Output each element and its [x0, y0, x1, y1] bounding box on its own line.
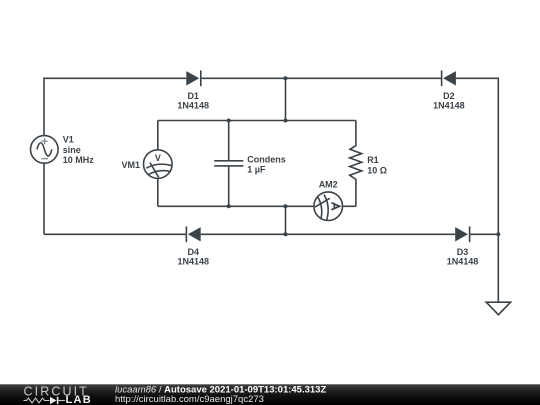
svg-text:D1: D1 — [187, 91, 199, 101]
footer bar — [0, 384, 540, 405]
svg-text:1N4148: 1N4148 — [177, 101, 209, 111]
node junction bottom mid — [284, 232, 288, 236]
voltage source V1 — [31, 121, 95, 166]
svg-text:V1: V1 — [63, 135, 74, 145]
diode D4 — [178, 226, 210, 266]
svg-text:1N4148: 1N4148 — [178, 257, 210, 267]
svg-text:10 Ω: 10 Ω — [367, 166, 387, 176]
node junction mid top — [284, 119, 288, 123]
diode D1 — [177, 70, 209, 110]
CircuitLab logo — [24, 384, 93, 405]
svg-text:D4: D4 — [188, 247, 200, 257]
node junction cap bottom — [227, 204, 231, 208]
footer text — [115, 384, 326, 405]
svg-text:10 MHz: 10 MHz — [63, 155, 95, 165]
wire: V1 bottom to bottom rail — [43, 163, 45, 234]
svg-text:R1: R1 — [367, 155, 379, 165]
wire: third horizontal VM1 bottom to AM2 left — [158, 205, 314, 207]
svg-text:V: V — [155, 153, 161, 163]
wire: second horizontal VM1 top to R1 top — [158, 120, 356, 122]
svg-text:sine: sine — [63, 145, 81, 155]
svg-text:AM2: AM2 — [319, 179, 338, 189]
wire: D2 anode right and down right side — [456, 78, 498, 234]
wire: D3 cathode to right rail — [470, 233, 498, 235]
svg-text:D3: D3 — [457, 247, 469, 257]
svg-text:1 µF: 1 µF — [247, 165, 266, 175]
wire: AM2 right to R1 bottom — [343, 205, 356, 207]
wire top-left: V1 top to D1 anode — [44, 78, 186, 135]
wire: right rail down to ground — [497, 234, 499, 302]
wire: bottom rail left to D4 cathode — [44, 233, 186, 235]
diode D3 — [447, 226, 479, 266]
svg-text:VM1: VM1 — [121, 160, 140, 170]
svg-text:http://circuitlab.com/c9aengj7: http://circuitlab.com/c9aengj7qc273 — [115, 394, 264, 405]
ground — [486, 302, 510, 315]
svg-text:D2: D2 — [443, 91, 455, 101]
svg-text:1N4148: 1N4148 — [433, 101, 465, 111]
node junction right bottom — [496, 232, 500, 236]
wire: mid vertical lower segment — [285, 206, 287, 234]
svg-text:Condens: Condens — [247, 155, 286, 165]
svg-text:1N4148: 1N4148 — [447, 257, 479, 267]
resistor R1 — [350, 121, 387, 207]
diode D2 — [433, 70, 465, 110]
node junction mid bottom — [284, 204, 288, 208]
capacitor Condens 1uF — [214, 121, 286, 207]
wire: mid vertical top segment — [285, 78, 287, 120]
wire: D4 anode to D3 anode — [201, 233, 456, 235]
ammeter AM2 — [314, 179, 343, 220]
wire: D1 cathode to D2 cathode — [202, 77, 442, 79]
svg-text:LAB: LAB — [66, 394, 93, 405]
wire: VM1 bottom lead — [157, 178, 159, 206]
node junction top mid — [284, 76, 288, 80]
node junction cap top — [227, 119, 231, 123]
voltmeter VM1 — [121, 121, 172, 179]
